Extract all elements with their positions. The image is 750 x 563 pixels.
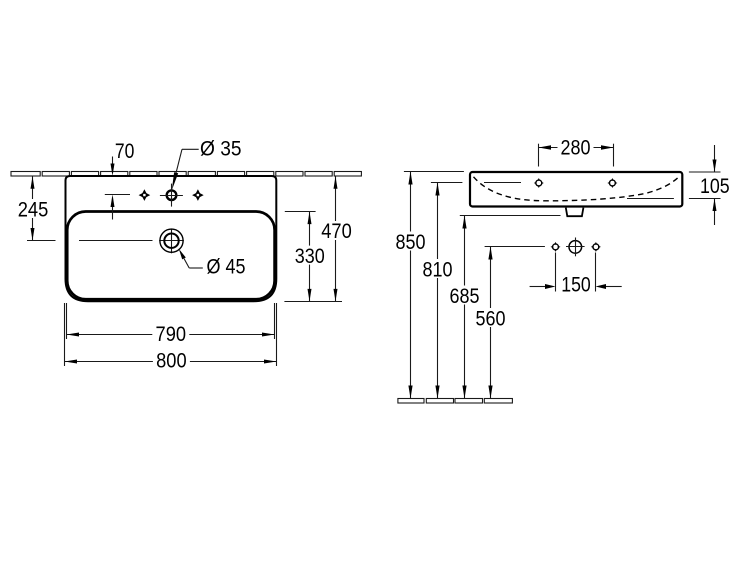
dim 800 [65, 350, 277, 373]
svg-text:70: 70 [115, 140, 134, 163]
dim 280 [539, 137, 614, 167]
washbasin outer outline (top view) [66, 176, 277, 301]
extension line inner-bowl top (for 330) [285, 211, 316, 213]
extension line mounting holes (for 560) [485, 246, 545, 248]
extension line basin top left (for 850) [404, 171, 464, 173]
dim 105 [689, 145, 730, 225]
washbasin inner bowl (top view) [67, 212, 274, 300]
extension lines 150 [555, 253, 557, 292]
extension lines 800 [64, 303, 66, 366]
dim 245 [16, 176, 51, 240]
inner bowl dashed profile (front view) [474, 177, 679, 201]
svg-text:800: 800 [156, 350, 187, 373]
faucet hole line (extension for dim 70) [105, 194, 130, 196]
dim 70 [111, 140, 135, 220]
svg-text:560: 560 [476, 308, 506, 331]
dim 330 [293, 212, 328, 302]
svg-text:245: 245 [18, 198, 49, 221]
mounting cross right (top view) [192, 189, 204, 201]
basin body (front view) [470, 172, 682, 207]
extension line inner-bowl bottom (for 330/470) [284, 301, 342, 303]
extension line drain bottom (for 685) [460, 215, 561, 217]
drain outlet stub (front view) [566, 208, 584, 217]
faucet hole mark right (front view) [607, 178, 617, 188]
svg-text:470: 470 [321, 220, 352, 243]
mounting hole circle (front view) [566, 238, 585, 257]
svg-text:150: 150 [561, 273, 591, 296]
dim 560 [474, 247, 509, 399]
faucet hole Ø35 [160, 184, 183, 207]
dim 850 [393, 172, 428, 399]
leader Ø45 [179, 249, 246, 279]
dim 470 [319, 176, 354, 301]
floor line [398, 399, 512, 404]
svg-text:Ø 35: Ø 35 [200, 137, 242, 160]
leader Ø35 [172, 137, 242, 190]
dim 150 [530, 273, 622, 296]
svg-text:330: 330 [295, 245, 325, 268]
mounting hole mark right (front view) [591, 242, 601, 252]
dim 790 [67, 323, 275, 346]
svg-text:685: 685 [450, 285, 480, 308]
mounting hole mark left (front view) [551, 242, 561, 252]
svg-text:850: 850 [396, 231, 426, 254]
inner rim line left (front view) [484, 182, 521, 184]
inner bottom line right (front view) [627, 198, 674, 200]
faucet hole mark left (front view) [534, 178, 544, 188]
extension lines 790 [66, 303, 68, 339]
drain Ø45 [27, 229, 184, 254]
svg-text:280: 280 [561, 137, 591, 160]
dim 810 [420, 183, 455, 399]
svg-text:810: 810 [423, 259, 453, 282]
svg-text:790: 790 [156, 323, 187, 346]
svg-text:Ø 45: Ø 45 [207, 256, 246, 279]
mounting cross left (top view) [139, 189, 151, 201]
wall tile line [11, 172, 361, 177]
dim 685 [447, 216, 482, 399]
svg-text:105: 105 [700, 175, 730, 198]
extension line faucet level (for 810) [431, 182, 463, 184]
